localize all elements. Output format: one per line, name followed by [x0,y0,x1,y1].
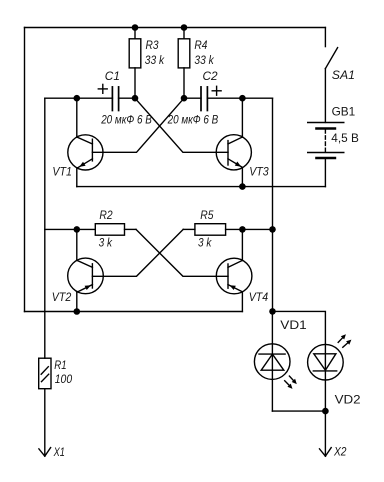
svg-text:R3: R3 [146,38,159,52]
svg-text:100: 100 [55,372,73,386]
wire cross-coupling R5 to VT2 base [92,229,183,276]
switch SA1 [325,28,337,123]
svg-text:20 мкФ 6 В: 20 мкФ 6 В [100,113,152,127]
svg-text:GB1: GB1 [332,105,356,119]
label C2 plus [212,86,221,95]
svg-text:SA1: SA1 [332,68,355,82]
svg-text:VT1: VT1 [52,165,72,179]
wire upper emitter rail [77,186,326,188]
wire cross-coupling R2 to VT4 base [136,229,228,276]
svg-text:33 k: 33 k [194,53,214,67]
svg-text:20 мкФ 6 В: 20 мкФ 6 В [167,113,219,127]
transistor VT4 [216,229,252,311]
node C1 right / R3 bottom [132,95,139,102]
svg-text:R1: R1 [54,358,66,372]
resistor R4 [178,28,190,99]
svg-text:R4: R4 [194,38,207,52]
svg-text:4,5 В: 4,5 В [331,131,359,145]
wire to X2 [324,411,326,456]
node C2 right / VT3 collector [239,95,246,102]
node VT2 emitter on lower rail [74,308,81,315]
wire battery minus to emitter rail [324,158,326,187]
capacitor C2 [184,87,273,111]
LED VD1 emission arrows [285,376,297,389]
LED VD2 [308,344,344,411]
svg-text:VT2: VT2 [52,290,72,304]
svg-text:X2: X2 [333,445,347,459]
svg-text:VT3: VT3 [249,165,269,179]
wire top positive rail [25,27,326,29]
terminal X1 [39,448,51,457]
node VT1 collector / C1 left [74,95,81,102]
wire R2 row from left vertical [45,228,96,230]
svg-text:C1: C1 [105,69,120,83]
svg-text:3 k: 3 k [198,236,212,250]
node LED bottom junction [322,408,329,415]
resistor R1 [39,358,51,456]
svg-text:33 k: 33 k [145,53,165,67]
svg-text:X1: X1 [53,445,65,459]
node VT4 collector junction [239,226,246,233]
wire left outer vertical [24,28,26,312]
transistor VT2 [68,229,104,311]
wire lower emitter rail VT2/VT4 [25,311,243,313]
terminal X2 [320,448,332,457]
resistor R5 [183,224,272,236]
resistor R2 [95,224,136,236]
svg-text:3 k: 3 k [99,236,113,250]
svg-text:C2: C2 [203,69,219,83]
node LED branch junction A [269,308,276,315]
node R5 right / vertical wire [269,226,276,233]
wire cross-coupling C1 to VT3 base [135,98,228,152]
node R3 top junction [132,24,139,31]
transistor VT1 [68,98,103,186]
wire C2 right down to LED node [272,98,274,311]
node C2 left / R4 bottom [181,95,188,102]
node VT2 collector junction [74,226,81,233]
resistor R3 [129,28,141,99]
wire LED bottoms join [272,410,325,412]
node VT3 emitter on rail [239,183,246,190]
svg-text:R5: R5 [200,208,214,222]
LED VD2 emission arrows [338,334,351,347]
label C1 plus [98,84,107,93]
wire cross-coupling C2 to VT1 base [92,98,184,152]
wire inner left vertical C1 to R1 [44,98,46,358]
svg-text:VD2: VD2 [335,392,361,406]
svg-text:VT4: VT4 [249,290,269,304]
LED VD1 [254,311,290,411]
wire node A to VD2 top [273,311,326,344]
transistor VT3 [216,98,251,186]
svg-text:R2: R2 [99,208,113,222]
node R4 top junction [181,24,188,31]
battery GB1 [308,123,344,159]
capacitor C1 [45,87,135,111]
svg-text:VD1: VD1 [280,318,306,332]
